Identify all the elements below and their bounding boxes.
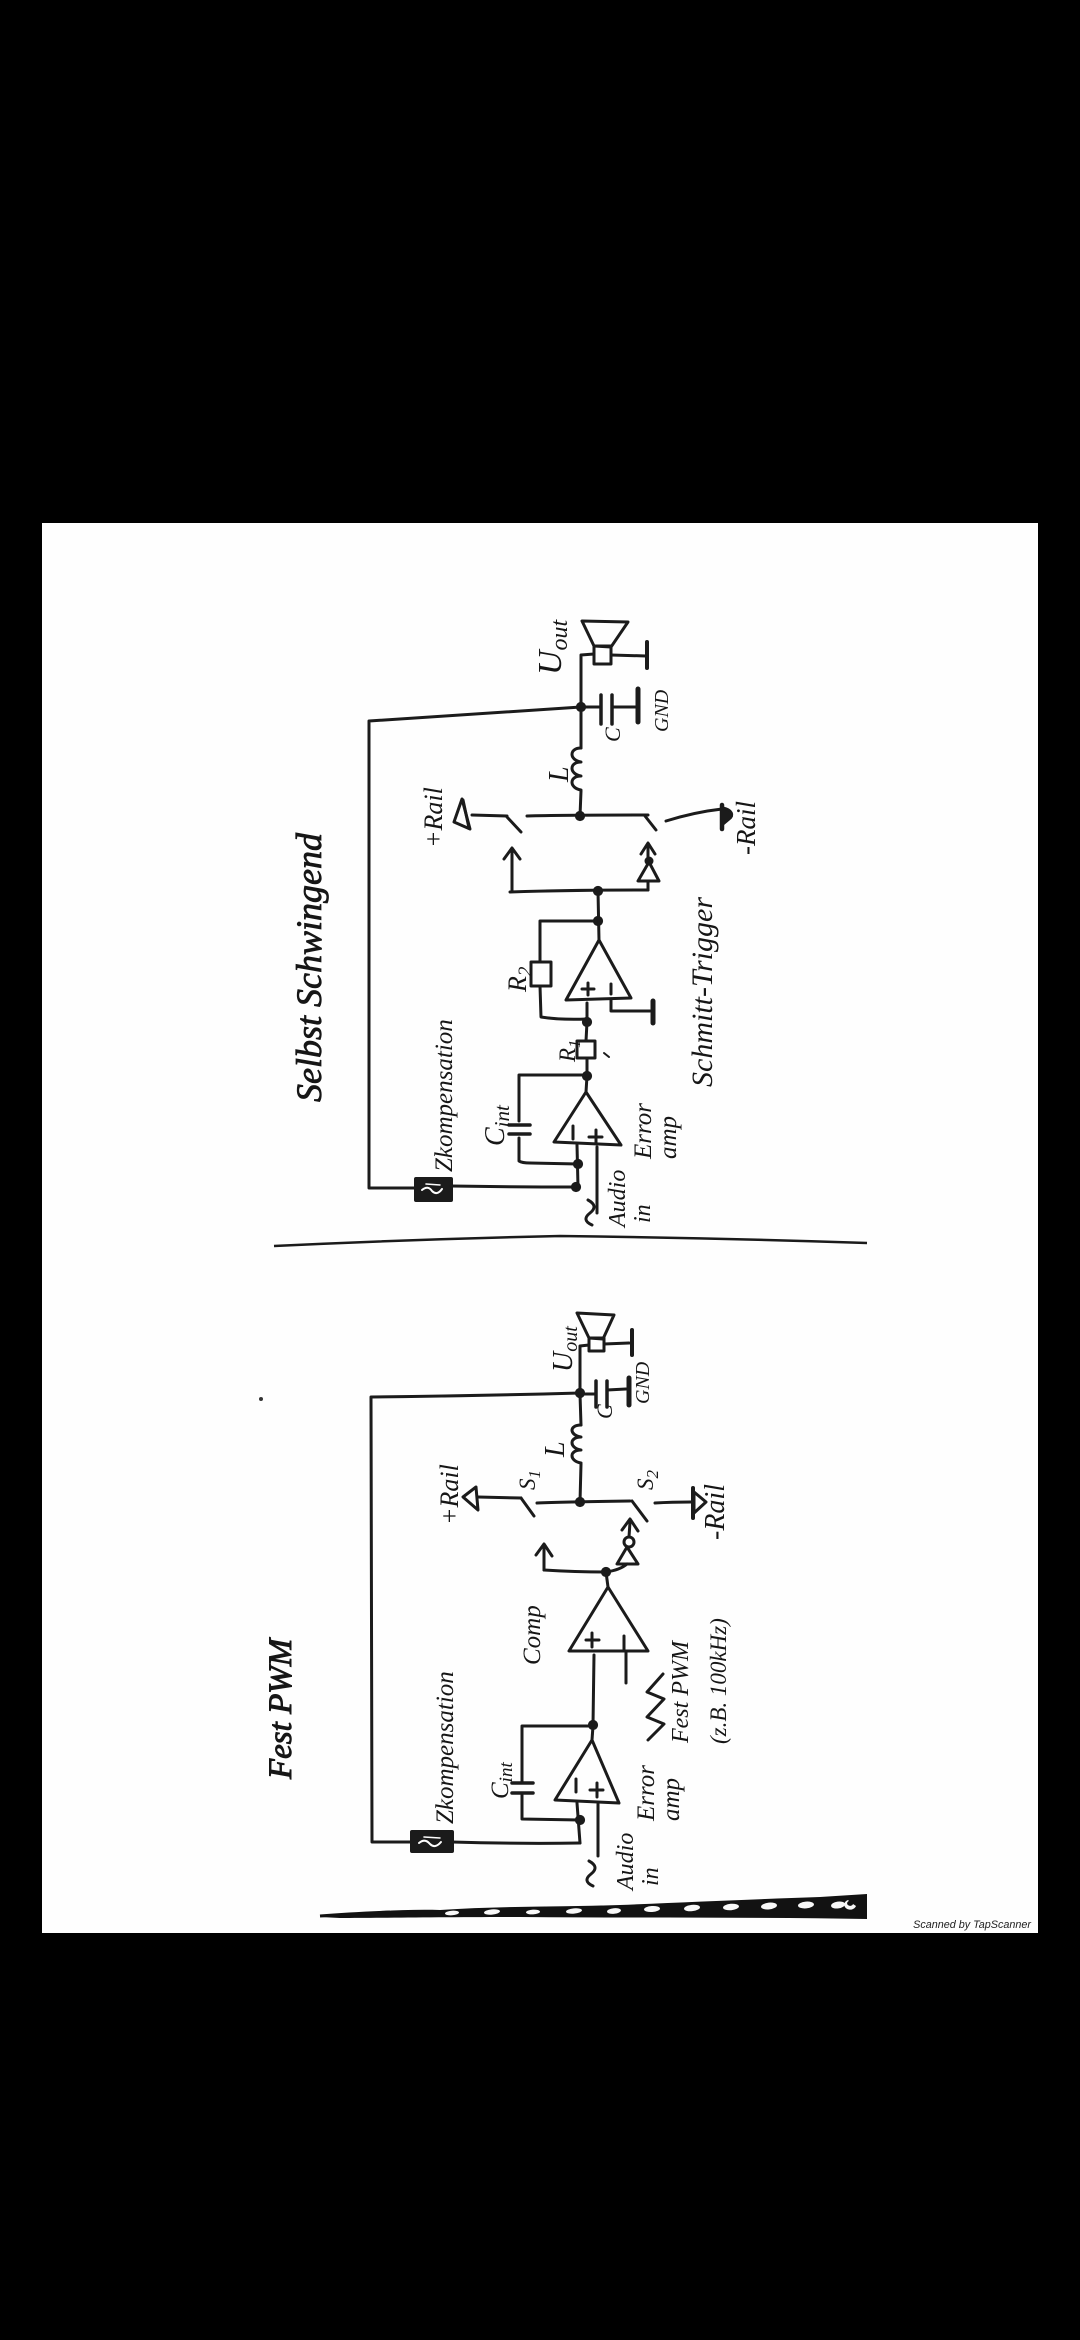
svg-text:(z.B. 100kHz): (z.B. 100kHz) (706, 1618, 731, 1744)
drive line (510, 890, 648, 892)
-Rail symbol (circuit 1) (722, 805, 732, 829)
node error-amp1 inverting input (572, 1145, 581, 1191)
inverter for low-side switch drive (638, 843, 659, 890)
svg-text:-Rail: -Rail (700, 1484, 731, 1540)
wire Z2 to error amp inverting node (452, 1842, 580, 1843)
drive arrow to switch S1 (536, 1544, 552, 1570)
comparator output node (602, 1568, 609, 1587)
svg-text:GND: GND (632, 1361, 654, 1404)
wire schmitt output up to drive line (594, 887, 601, 940)
error amp2 inverting input wires (576, 1803, 583, 1843)
capacitor Cint1 plates (509, 1125, 530, 1134)
speaker return bar (611, 642, 647, 668)
+Rail symbol (circuit 2) (463, 1487, 478, 1510)
inverter for switch S2 drive (606, 1519, 638, 1572)
svg-text:+Rail: +Rail (435, 1464, 464, 1525)
audio in source (circuit 2) (587, 1804, 598, 1886)
speaker return bar (circuit 2) (604, 1330, 632, 1355)
svg-text:Scanned by TapScanner: Scanned by TapScanner (913, 1919, 1031, 1931)
inductor L1 (572, 707, 581, 816)
svg-text:Fest PWM: Fest PWM (668, 1639, 694, 1744)
svg-text:Comp: Comp (519, 1605, 546, 1665)
op-amp comparator (569, 1587, 648, 1651)
capacitor C1 (581, 695, 636, 724)
svg-text:L: L (544, 766, 575, 783)
wire node H to speaker (580, 1345, 589, 1393)
capacitor Cint1 loop wires (519, 1075, 587, 1164)
inductor L2 (572, 1394, 581, 1502)
resistor R2 with feedback loop (531, 921, 598, 1019)
node E schmitt output (594, 917, 601, 924)
-Rail symbol (circuit 2) (693, 1488, 706, 1518)
+Rail symbol (circuit 1) (454, 799, 470, 829)
svg-text:-Rail: -Rail (731, 801, 761, 855)
output switching node line (circuit 2) (537, 1498, 630, 1505)
capacitor Cint2 loop wires (522, 1726, 593, 1820)
op-amp error amp 2 (555, 1740, 619, 1803)
output switching node line (527, 812, 648, 819)
ground at schmitt inverting input (611, 1000, 653, 1023)
svg-text:C: C (592, 1404, 617, 1419)
sawtooth waveform symbol (647, 1674, 664, 1740)
svg-text:L: L (540, 1441, 571, 1458)
wire feedback top from output node to Z-kompensation (circuit 1) (369, 707, 581, 1188)
output node A (577, 703, 584, 710)
node D schmitt input (583, 1003, 590, 1026)
ground at C2 (627, 1378, 632, 1405)
svg-text:Selbst Schwingend: Selbst Schwingend (289, 832, 329, 1102)
wire node J to comparator (593, 1655, 594, 1725)
Z-kompensation box Z2 (412, 1832, 452, 1851)
svg-text:Zkompensation: Zkompensation (431, 1019, 458, 1172)
speaker LS2 (577, 1313, 614, 1351)
op-amp schmitt trigger U2 (566, 940, 631, 1000)
low-side switch (645, 809, 722, 830)
ground at C1 (636, 689, 641, 722)
high-side switch (472, 815, 521, 832)
output node H (576, 1389, 583, 1396)
resistor R1 (577, 1022, 609, 1076)
op-amp error amp 1 (554, 1092, 621, 1145)
Z-kompensation box Z1 (416, 1179, 451, 1200)
wire node A to speaker (581, 654, 594, 707)
svg-text:GND: GND (651, 689, 673, 732)
capacitor C2 (580, 1381, 626, 1407)
drive arrow to high-side switch (504, 848, 520, 891)
comparator sawtooth input stub (625, 1651, 628, 1683)
drive line (circuit 2) (544, 1570, 606, 1572)
svg-text:Fest PWM: Fest PWM (263, 1637, 299, 1780)
svg-text:+Rail: +Rail (419, 787, 448, 848)
audio in source (circuit 1) (586, 1147, 597, 1225)
wire error amp2 output to node J (589, 1721, 596, 1740)
svg-text:C: C (600, 727, 625, 742)
speaker LS1 (582, 621, 628, 664)
capacitor Cint2 plates (512, 1783, 533, 1793)
svg-text:Schmitt-Trigger: Schmitt-Trigger (686, 897, 719, 1087)
wire Z1 to error amp inverting node (451, 1186, 576, 1187)
svg-text:Zkompensation: Zkompensation (432, 1671, 459, 1824)
switch S1 (478, 1497, 534, 1516)
switch S2 (632, 1501, 691, 1521)
wire error amp1 output to node B (583, 1072, 590, 1092)
wire feedback from output node to Z-kompensation (circuit 2) (371, 1393, 580, 1842)
